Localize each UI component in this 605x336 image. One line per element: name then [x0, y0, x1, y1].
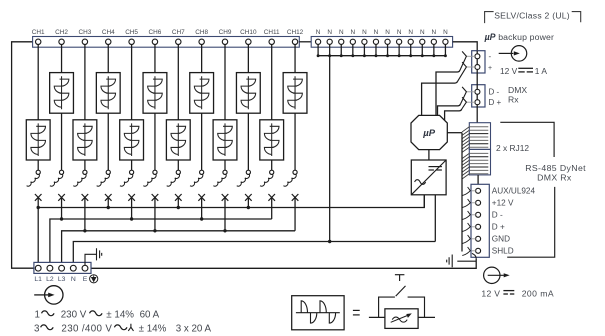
wire N6 stub to neutral bus: [375, 44, 377, 55]
junction CH1-L1: [37, 206, 40, 209]
SELV bracket left: [485, 12, 494, 24]
wire CH4 to bus: [107, 197, 109, 207]
wire uP to converter: [428, 150, 430, 160]
terminal D -: [476, 212, 481, 217]
wire N5 stub to neutral bus: [363, 44, 365, 55]
connector RJ12 socket 1: [469, 123, 490, 150]
svg-text:RS-485 DyNet: RS-485 DyNet: [525, 163, 586, 173]
chassis earth at SHLD: [447, 253, 477, 267]
terminal D+ dmx: [475, 100, 480, 105]
wire N12 stub to neutral bus: [444, 44, 446, 55]
flexible conductor CH5: [120, 174, 133, 186]
wire N10 stub to neutral bus: [421, 44, 423, 55]
terminal CH5: [129, 39, 134, 44]
junction N1: [317, 54, 320, 57]
svg-text:N: N: [443, 29, 448, 36]
chassis earth at E terminal: [85, 248, 102, 265]
terminal L2: [47, 265, 53, 271]
terminal D- dmx: [475, 89, 480, 94]
bus line L2: [50, 219, 272, 262]
wire CH5 terminal to dimmer module: [131, 45, 133, 120]
terminal N: [70, 265, 76, 271]
wire CH8 module to output terminal: [201, 113, 203, 170]
svg-text:CH9: CH9: [219, 29, 232, 36]
cable bundle line: [461, 133, 463, 252]
dimmer module CH8: [190, 73, 214, 114]
junction CH2-L2: [60, 217, 63, 220]
wire CH5 to bus: [131, 197, 133, 219]
wire CH6 terminal to dimmer module: [154, 45, 156, 73]
svg-text:± 14%: ± 14%: [106, 309, 134, 320]
clamp X CH2: [58, 194, 65, 201]
junction CH6-L3: [153, 229, 156, 232]
wire CH8 terminal to dimmer module: [201, 45, 203, 73]
svg-text:CH12: CH12: [287, 29, 304, 36]
terminal CH1: [36, 39, 41, 44]
legend phase-cut waveform: [296, 301, 340, 323]
connector DMX: [472, 85, 485, 107]
wire CH1 to bus: [37, 197, 39, 262]
svg-text:1 A: 1 A: [535, 66, 548, 76]
dimmer module CH3: [73, 120, 97, 160]
wire CH9 module to output terminal: [224, 160, 226, 170]
terminal CH3: [82, 39, 87, 44]
svg-text:+: +: [488, 65, 492, 72]
wire CH7 to bus: [177, 197, 179, 207]
clamp X CH6: [152, 194, 159, 201]
junction N4: [351, 54, 354, 57]
terminal N9: [408, 39, 413, 44]
flexible conductor CH8: [190, 174, 203, 186]
wire CH10 to bus: [247, 197, 249, 207]
wire CH11 to bus: [271, 197, 273, 219]
terminal AUX/UL924: [476, 188, 481, 193]
terminal N2: [327, 39, 332, 44]
wire CH12 terminal to dimmer module: [294, 45, 296, 73]
terminal N5: [362, 39, 367, 44]
wire CH4 terminal to dimmer module: [107, 45, 109, 73]
dimmer module CH11: [260, 120, 284, 160]
svg-text:D -: D -: [489, 88, 500, 97]
wire CH8 to bus: [201, 197, 203, 219]
flexible conductor CH12: [283, 174, 296, 186]
wire backup plus to uP: [422, 81, 458, 115]
wire N4 stub to neutral bus: [352, 44, 354, 55]
junction N7: [386, 54, 389, 57]
RJ12 contacts and fan-out wires: [469, 126, 488, 128]
wire DMX connector to RJ12: [476, 107, 478, 123]
svg-text:µP: µP: [484, 32, 496, 42]
terminal CH11: [269, 39, 274, 44]
wire CH1 terminal to dimmer module: [37, 45, 39, 120]
svg-text:L2: L2: [46, 276, 54, 283]
svg-text:AUX/UL924: AUX/UL924: [492, 187, 536, 196]
svg-text:CH5: CH5: [125, 29, 138, 36]
connector RJ12 socket 2: [469, 149, 490, 175]
wire CH9 to bus: [224, 197, 226, 230]
dimmer module CH12: [283, 73, 307, 114]
svg-text:CH10: CH10: [240, 29, 257, 36]
svg-text:CH11: CH11: [264, 29, 280, 36]
svg-text:N: N: [316, 29, 321, 36]
svg-text:12 V: 12 V: [481, 289, 500, 299]
terminal +12 V: [476, 200, 481, 205]
mains source symbol: [45, 286, 63, 304]
svg-text:CH3: CH3: [79, 29, 92, 36]
svg-text:N: N: [420, 29, 425, 36]
connector backup power: [472, 51, 485, 73]
svg-text:DMX Rx: DMX Rx: [537, 173, 572, 183]
clamp backup plus: [466, 66, 475, 68]
svg-text:N: N: [351, 29, 356, 36]
wire E line to SHLD: [91, 259, 476, 269]
SELV bracket right: [572, 12, 581, 23]
output terminal CH5: [130, 170, 134, 174]
junction N6: [375, 54, 378, 57]
wire CH6 module to output terminal: [154, 113, 156, 170]
junction CH3-L3: [83, 229, 86, 232]
wire CH1 module to output terminal: [37, 160, 39, 170]
terminal N3: [339, 39, 344, 44]
terminal CH4: [106, 39, 111, 44]
wire CH3 to bus: [84, 197, 86, 230]
svg-text:200 mA: 200 mA: [522, 289, 554, 299]
flexible conductor CH2: [50, 174, 63, 186]
svg-text:GND: GND: [492, 235, 510, 244]
terminal N8: [397, 39, 402, 44]
wire CH3 terminal to dimmer module: [84, 45, 86, 120]
svg-text:± 14%: ± 14%: [139, 323, 167, 334]
terminal CH8: [199, 39, 204, 44]
junction N12: [444, 54, 447, 57]
terminal L3: [59, 265, 65, 271]
dimmer module CH10: [236, 73, 260, 114]
junction N10: [421, 54, 424, 57]
svg-text:N: N: [362, 29, 367, 36]
wire converter to L1 bus: [423, 195, 425, 208]
wire RJ12 to AUX connector: [477, 175, 479, 184]
terminal N12: [443, 39, 448, 44]
output terminal CH2: [59, 170, 63, 174]
clamp +12 V: [472, 202, 476, 204]
output terminal CH1: [36, 170, 40, 174]
output terminal CH9: [223, 170, 227, 174]
op-amp --- actually µP octagon U1: [411, 115, 447, 149]
bus line L3: [62, 231, 295, 263]
wire CH2 to bus: [61, 197, 63, 219]
junction N9: [409, 54, 412, 57]
terminal CH7: [176, 39, 181, 44]
output terminal CH12: [293, 170, 297, 174]
terminal CH2: [59, 39, 64, 44]
terminal backup plus: [475, 65, 480, 70]
svg-text:1: 1: [35, 309, 40, 320]
clamp D+ dmx: [466, 101, 475, 103]
clamp X CH8: [198, 194, 205, 201]
wire converter to N bus: [434, 195, 436, 242]
wire backup minus to uP: [436, 70, 460, 115]
terminal E: [82, 265, 88, 271]
clamp SHLD: [472, 250, 476, 252]
svg-text:L1: L1: [34, 276, 42, 283]
wire left boundary from CH block to L1L2L3NE block: [12, 42, 34, 268]
clamp X CH12: [292, 194, 299, 201]
wire CH7 terminal to dimmer module: [177, 45, 179, 120]
clamp D -: [472, 214, 476, 216]
flexible conductor CH9: [213, 174, 226, 186]
wire CH9 terminal to dimmer module: [224, 45, 226, 120]
wire CH7 module to output terminal: [177, 160, 179, 170]
terminal N1: [316, 39, 321, 44]
wire N2 stub to neutral bus: [329, 44, 331, 55]
wire CH10 module to output terminal: [247, 113, 249, 170]
dimmer module CH5: [120, 120, 144, 160]
flexible conductor CH3: [73, 174, 86, 186]
terminal CH6: [152, 39, 157, 44]
dimmer module CH9: [213, 120, 237, 160]
junction N3: [340, 54, 343, 57]
power converter AC-DC: [411, 160, 446, 195]
clamp X CH10: [245, 194, 252, 201]
svg-text:D -: D -: [492, 211, 503, 220]
svg-text:+12 V: +12 V: [492, 199, 514, 208]
wire N block to backup connector: [453, 42, 478, 51]
svg-text:N: N: [385, 29, 390, 36]
bus line L1: [38, 195, 424, 208]
flexible conductor CH1: [27, 174, 40, 186]
dimmer module CH4: [96, 73, 120, 114]
flexible conductor CH11: [260, 174, 273, 186]
output terminal CH3: [83, 170, 87, 174]
legend equals sign: [353, 309, 360, 311]
wire CH11 terminal to dimmer module: [271, 45, 273, 120]
wire CH3 module to output terminal: [84, 160, 86, 170]
terminal N4: [350, 39, 355, 44]
terminal SHLD: [476, 248, 481, 253]
svg-text:CH1: CH1: [32, 29, 45, 36]
legend dimmer bypass loop: [379, 297, 425, 317]
svg-text:SHLD: SHLD: [492, 247, 514, 256]
terminal GND: [476, 236, 481, 241]
svg-text:CH2: CH2: [55, 29, 68, 36]
clamp GND: [472, 238, 476, 240]
terminal D +: [476, 224, 481, 229]
junction CH8-L2: [200, 217, 203, 220]
wire N8 stub to neutral bus: [398, 44, 400, 55]
legend controlled rectifier box: [385, 309, 418, 329]
svg-text:CH4: CH4: [102, 29, 115, 36]
wire CH12 module to output terminal: [294, 113, 296, 170]
wire CH11 module to output terminal: [271, 160, 273, 170]
svg-text:µP: µP: [422, 128, 435, 139]
svg-text:2 x RJ12: 2 x RJ12: [496, 143, 529, 153]
output terminal CH10: [246, 170, 250, 174]
bus line N: [73, 242, 435, 263]
terminal N7: [385, 39, 390, 44]
junction CH4-L1: [107, 206, 110, 209]
terminal N10: [420, 39, 425, 44]
terminal block L1 L2 L3 N E: [34, 262, 91, 273]
clamp AUX/UL924: [472, 190, 476, 192]
terminal CH10: [246, 39, 251, 44]
svg-text:CH7: CH7: [172, 29, 185, 36]
wire CH10 terminal to dimmer module: [247, 45, 249, 73]
callout line RJ12 to DyNet label: [500, 122, 554, 157]
svg-text:3: 3: [34, 323, 40, 334]
svg-text:L3: L3: [58, 276, 66, 283]
junction CH7-L1: [177, 206, 180, 209]
svg-text:CH8: CH8: [195, 29, 208, 36]
svg-text:N: N: [374, 29, 379, 36]
supply symbol 12V 1A: [511, 46, 527, 62]
wire CH4 module to output terminal: [107, 113, 109, 170]
callout line DyNet: [507, 187, 555, 257]
junction N-drop: [328, 240, 331, 243]
clamp X CH5: [128, 194, 135, 201]
wire N1 stub to neutral bus: [317, 44, 319, 55]
junction CH9-L3: [223, 229, 226, 232]
connector AUX/UL924 block: [471, 184, 489, 257]
wire link CH block to N block: [299, 41, 311, 43]
junction N8: [398, 54, 401, 57]
svg-text:12 V: 12 V: [500, 66, 518, 76]
svg-text:3 x 20 A: 3 x 20 A: [176, 323, 212, 334]
wire CH2 module to output terminal: [61, 113, 63, 170]
svg-text:DMX: DMX: [508, 85, 527, 95]
wire N9 stub to neutral bus: [410, 44, 412, 55]
svg-text:230 /400 V: 230 /400 V: [61, 323, 112, 334]
svg-text:N: N: [408, 29, 413, 36]
svg-text:D +: D +: [492, 223, 505, 232]
wire CH2 terminal to dimmer module: [61, 45, 63, 73]
clamp X CH9: [222, 194, 229, 201]
terminal backup minus: [475, 54, 480, 59]
dimmer module CH1: [26, 120, 50, 160]
clamp X CH7: [175, 194, 182, 201]
clamp X CH1: [35, 194, 42, 201]
terminal N11: [431, 39, 436, 44]
dimmer module CH7: [166, 120, 190, 160]
output terminal CH7: [176, 170, 180, 174]
wire CH5 module to output terminal: [131, 160, 133, 170]
clamp D +: [472, 226, 476, 228]
clamp X CH3: [82, 194, 89, 201]
svg-text:60 A: 60 A: [140, 309, 160, 320]
flexible conductor CH7: [167, 174, 180, 186]
svg-text:230 V: 230 V: [61, 309, 87, 320]
svg-text:N: N: [339, 29, 344, 36]
svg-text:N: N: [432, 29, 437, 36]
junction CH5-L2: [130, 217, 133, 220]
wire D- to uP: [438, 104, 461, 115]
output terminal CH8: [200, 170, 204, 174]
terminal CH9: [222, 39, 227, 44]
junction N11: [432, 54, 435, 57]
wire CH12 to bus: [294, 197, 296, 230]
svg-text:D +: D +: [489, 98, 502, 107]
neutral bus: [318, 55, 445, 57]
terminal N6: [373, 39, 378, 44]
terminal block N x12: [311, 37, 452, 48]
output terminal CH6: [153, 170, 157, 174]
svg-text:N: N: [327, 29, 332, 36]
legend dimmer circuit wire: [369, 316, 385, 318]
clamp D- dmx: [466, 91, 475, 93]
flexible conductor CH4: [97, 174, 110, 186]
wire D+ to uP: [445, 109, 462, 120]
svg-text:-: -: [489, 52, 492, 61]
wire N3 stub to neutral bus: [340, 44, 342, 55]
terminal L1: [35, 265, 41, 271]
protective earth symbol: [90, 275, 98, 283]
legend waveform box: [292, 296, 344, 330]
junction N2: [328, 54, 331, 57]
clamp backup minus: [466, 55, 475, 57]
junction CH10-L1: [247, 206, 250, 209]
wire neutral bus drop to N line: [329, 56, 331, 242]
output terminal CH4: [106, 170, 110, 174]
wire uP to RJ12 bundle: [447, 132, 462, 134]
terminal CH12: [292, 39, 297, 44]
clamp X CH11: [268, 194, 275, 201]
legend switch gate: [395, 274, 405, 276]
flexible conductor CH10: [237, 174, 250, 186]
wire N11 stub to neutral bus: [433, 44, 435, 55]
clamp X CH4: [105, 194, 112, 201]
svg-text:N: N: [397, 29, 402, 36]
wire N7 stub to neutral bus: [387, 44, 389, 55]
dimmer module CH2: [50, 73, 74, 114]
svg-text:E: E: [83, 276, 88, 283]
junction N5: [363, 54, 366, 57]
svg-text:SELV/Class 2 (UL): SELV/Class 2 (UL): [494, 10, 570, 20]
svg-text:Rx: Rx: [508, 95, 519, 105]
flexible conductor CH6: [143, 174, 156, 186]
wire CH6 to bus: [154, 197, 156, 230]
terminal block CH1-CH12: [33, 37, 300, 48]
output terminal CH11: [270, 170, 274, 174]
supply symbol 12V 200mA: [484, 267, 500, 283]
svg-text:backup power: backup power: [498, 32, 554, 42]
svg-text:N: N: [71, 276, 76, 283]
svg-text:CH6: CH6: [149, 29, 162, 36]
dimmer module CH6: [143, 73, 167, 114]
